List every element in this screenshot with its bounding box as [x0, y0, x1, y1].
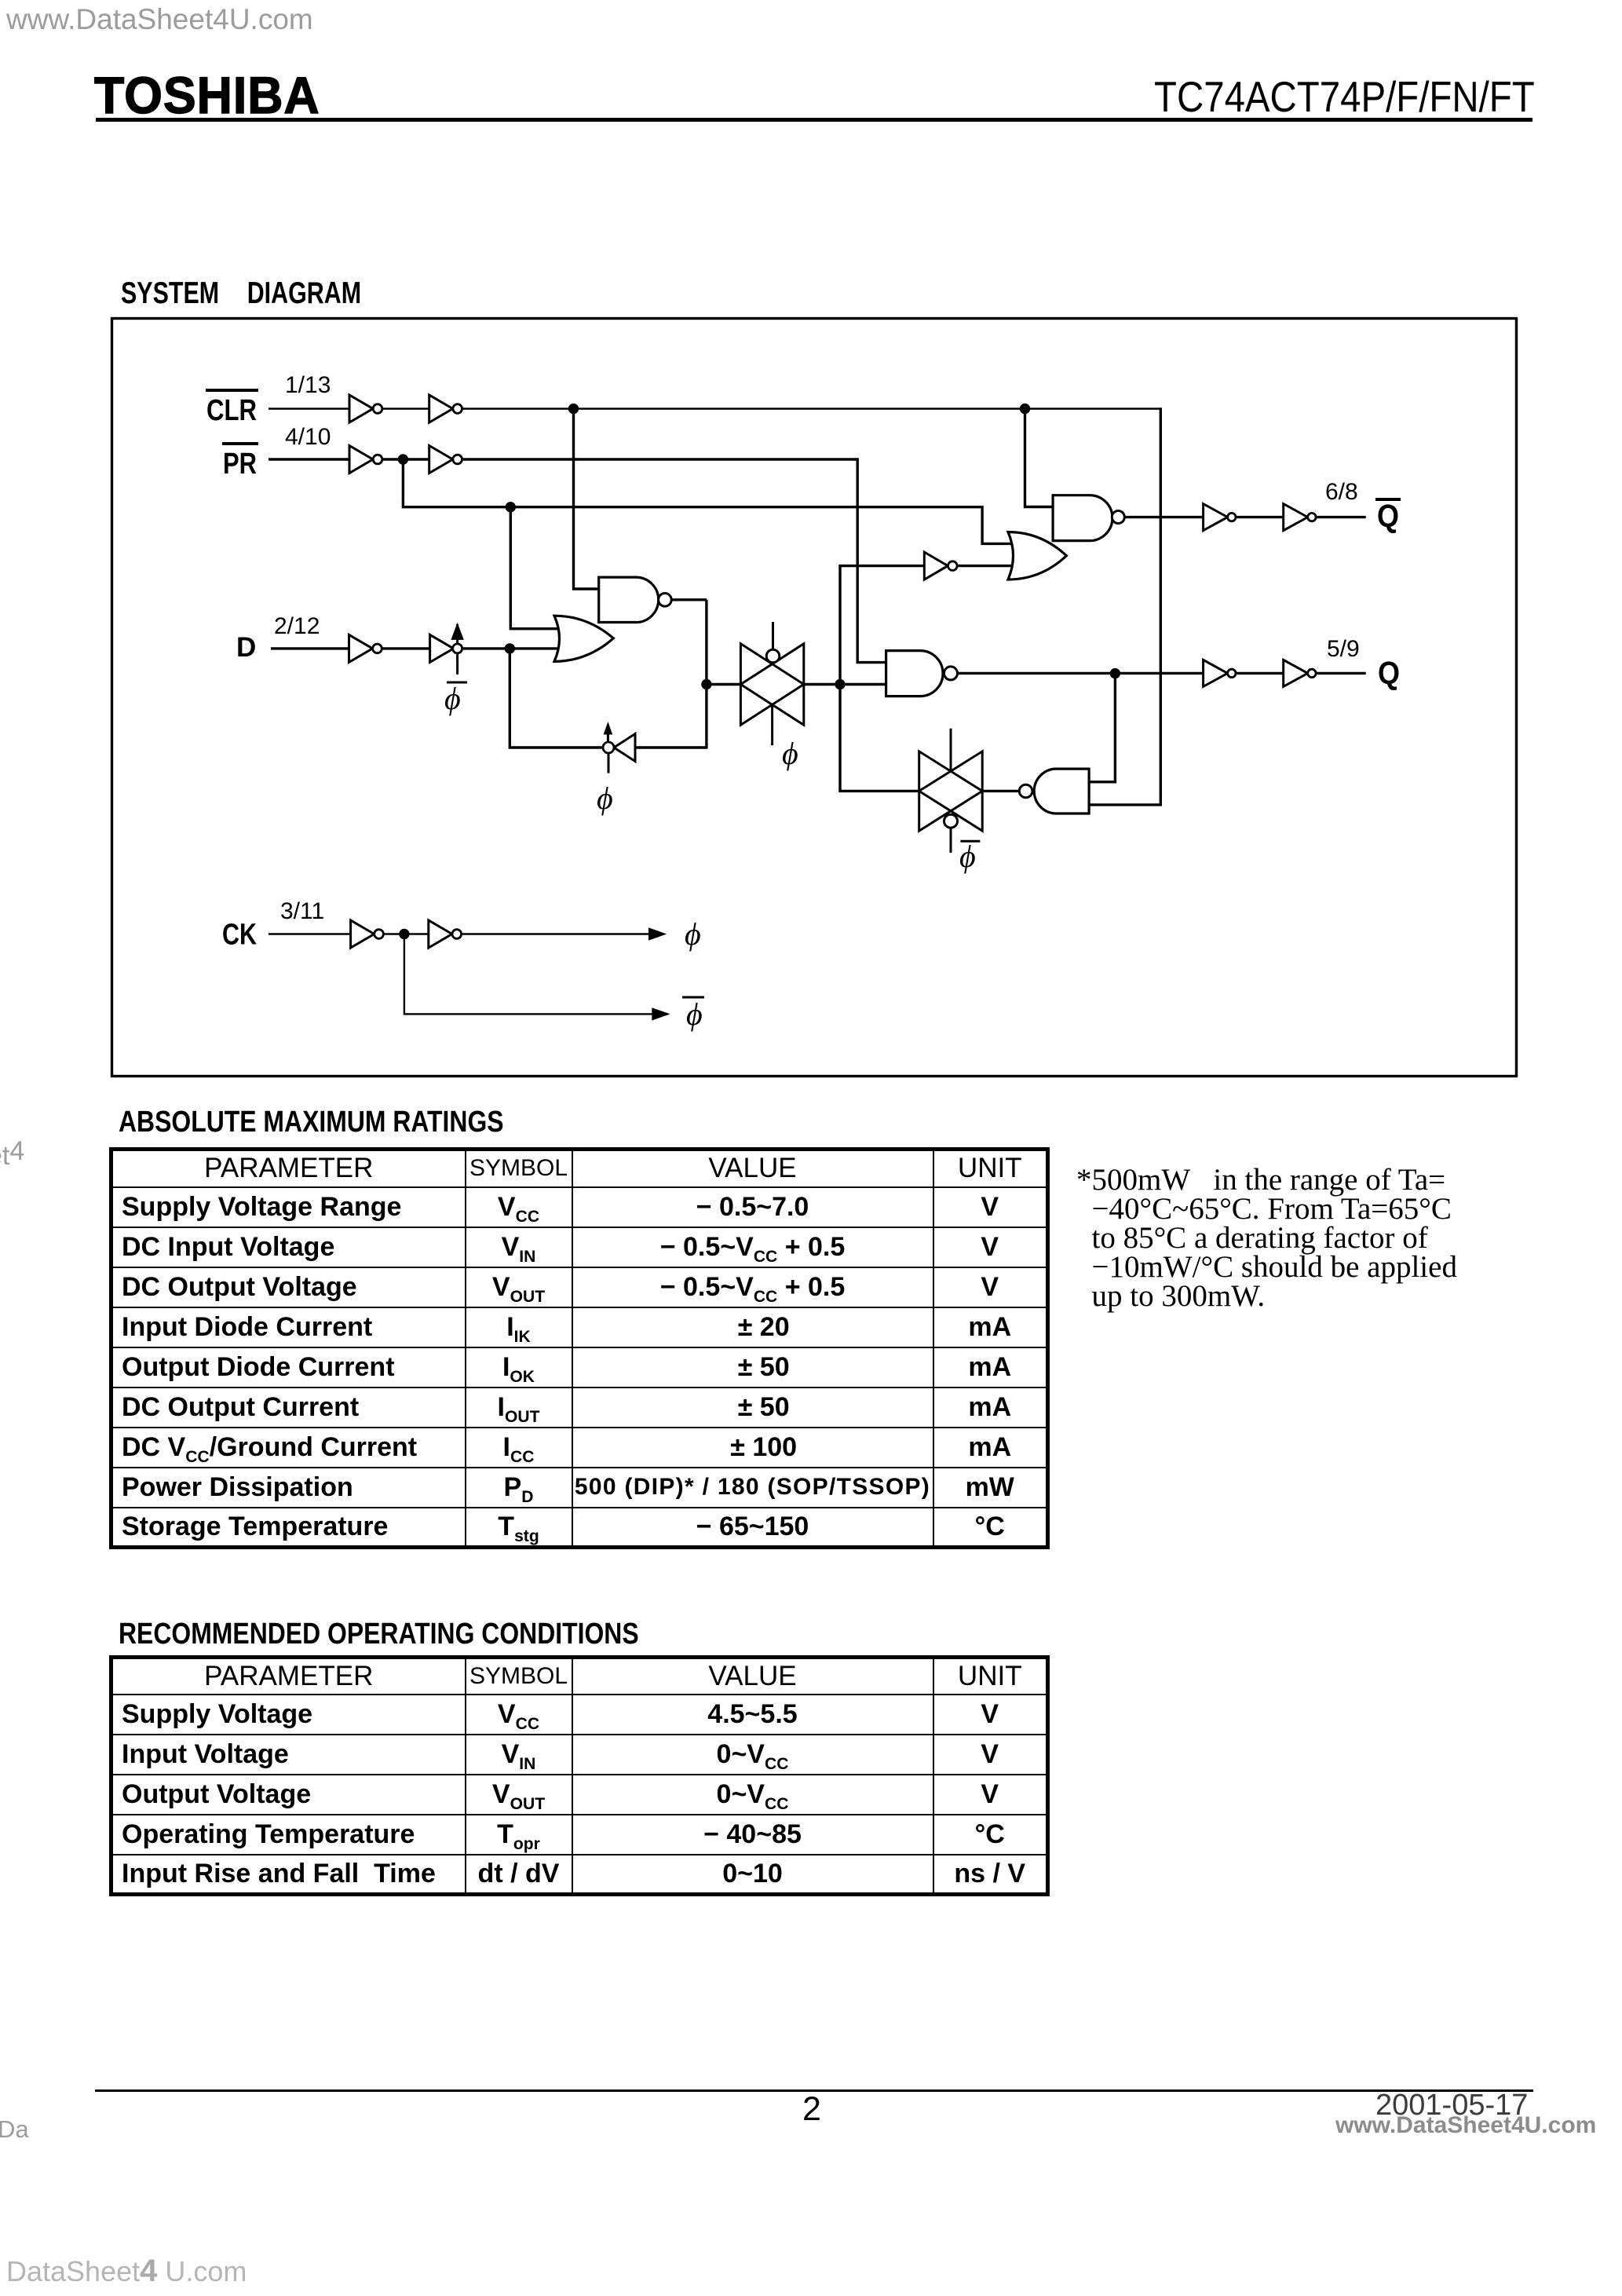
svg-text:4/10: 4/10	[285, 424, 331, 450]
svg-text:Q: Q	[1377, 498, 1399, 534]
svg-text:ϕ: ϕ	[597, 781, 613, 816]
svg-text:2/12: 2/12	[274, 613, 320, 639]
svg-text:6/8: 6/8	[1325, 479, 1358, 505]
svg-text:PR: PR	[223, 448, 257, 481]
svg-text:5/9: 5/9	[1327, 636, 1360, 662]
svg-text:ϕ: ϕ	[685, 916, 701, 952]
svg-text:ϕ: ϕ	[444, 681, 461, 716]
svg-text:D: D	[236, 632, 256, 663]
svg-text:Q: Q	[1378, 655, 1400, 691]
svg-text:ϕ: ϕ	[686, 996, 703, 1032]
svg-text:ϕ: ϕ	[782, 736, 798, 771]
svg-text:ϕ: ϕ	[959, 839, 976, 874]
svg-text:1/13: 1/13	[285, 372, 331, 398]
svg-text:3/11: 3/11	[280, 898, 324, 924]
svg-text:CK: CK	[222, 919, 257, 952]
svg-text:CLR: CLR	[206, 394, 257, 427]
